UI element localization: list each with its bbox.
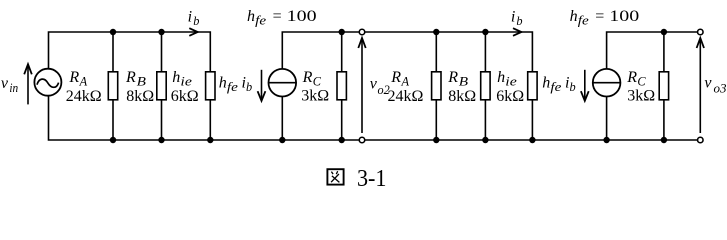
svg-text:8kΩ: 8kΩ xyxy=(448,88,476,105)
svg-text:C: C xyxy=(313,74,322,88)
svg-text:i: i xyxy=(188,9,192,26)
svg-text:v: v xyxy=(704,75,712,92)
svg-text:R: R xyxy=(626,69,637,86)
svg-text:b: b xyxy=(570,80,576,94)
svg-text:ie: ie xyxy=(505,74,517,88)
svg-text:v: v xyxy=(370,76,378,93)
svg-text:fe: fe xyxy=(227,80,239,94)
svg-text:b: b xyxy=(193,14,199,28)
svg-text:A: A xyxy=(401,74,410,88)
svg-text:fe: fe xyxy=(550,80,562,94)
svg-text:h: h xyxy=(219,75,227,92)
svg-text:h: h xyxy=(172,69,180,86)
svg-text:i: i xyxy=(511,9,515,26)
svg-text:b: b xyxy=(516,14,522,28)
svg-text:R: R xyxy=(125,69,136,86)
svg-text:R: R xyxy=(68,69,79,86)
svg-text:100: 100 xyxy=(609,8,639,25)
svg-text:3kΩ: 3kΩ xyxy=(627,88,655,105)
svg-text:o3: o3 xyxy=(714,82,727,96)
svg-text:C: C xyxy=(637,74,646,88)
svg-text:B: B xyxy=(459,74,469,88)
svg-text:h: h xyxy=(570,8,578,25)
svg-text:fe: fe xyxy=(255,13,267,27)
svg-text:3kΩ: 3kΩ xyxy=(301,88,329,105)
svg-text:=: = xyxy=(273,8,282,25)
svg-text:24kΩ: 24kΩ xyxy=(66,88,102,105)
svg-text:v: v xyxy=(1,75,9,92)
svg-text:fe: fe xyxy=(578,13,590,27)
svg-text:ie: ie xyxy=(180,74,192,88)
svg-text:B: B xyxy=(137,74,147,88)
svg-text:=: = xyxy=(595,8,604,25)
svg-text:R: R xyxy=(302,69,313,86)
svg-text:h: h xyxy=(497,69,505,86)
svg-text:100: 100 xyxy=(287,8,317,25)
svg-text:6kΩ: 6kΩ xyxy=(171,88,199,105)
svg-text:24kΩ: 24kΩ xyxy=(388,88,424,105)
svg-text:b: b xyxy=(246,80,252,94)
svg-text:h: h xyxy=(247,8,255,25)
svg-text:A: A xyxy=(79,74,88,88)
svg-text:8kΩ: 8kΩ xyxy=(126,88,154,105)
svg-text:in: in xyxy=(9,81,18,95)
svg-text:R: R xyxy=(390,69,401,86)
svg-text:3-1: 3-1 xyxy=(357,165,387,190)
svg-text:R: R xyxy=(447,69,458,86)
svg-text:h: h xyxy=(542,75,550,92)
svg-text:6kΩ: 6kΩ xyxy=(496,88,524,105)
